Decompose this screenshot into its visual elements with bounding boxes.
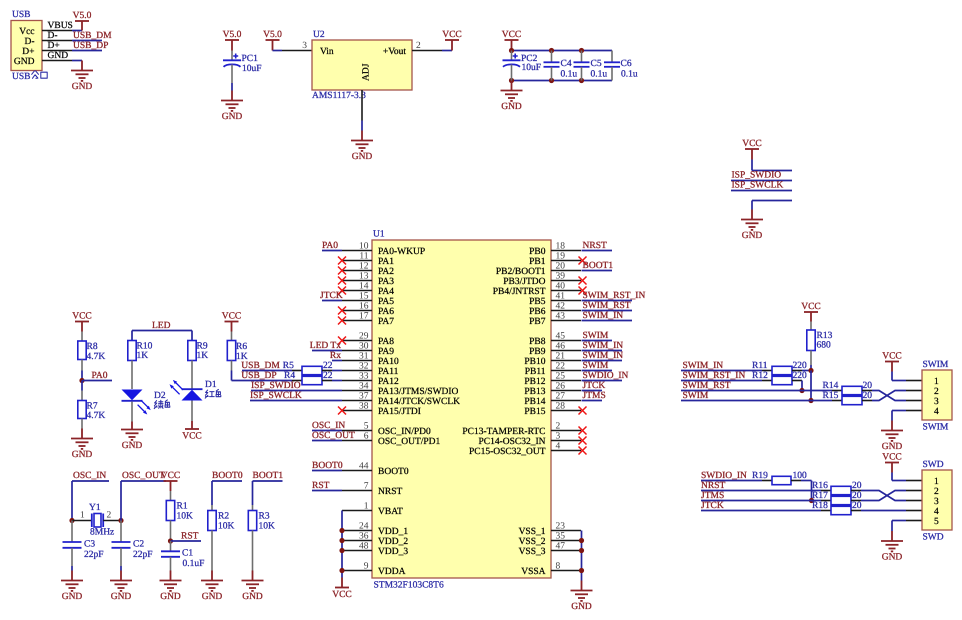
power V5.0 (USB) — [73, 11, 92, 31]
wire net JTCK (U1 pin 26) — [582, 381, 606, 391]
svg-text:VCC: VCC — [222, 312, 242, 322]
svg-text:VSS_3: VSS_3 — [519, 547, 546, 557]
svg-text:VCC: VCC — [332, 590, 352, 600]
wire ISP VCC — [752, 160, 792, 171]
wire net USB_DP with resistor R4 22 — [232, 371, 343, 385]
svg-text:OSC_IN/PD0: OSC_IN/PD0 — [378, 427, 431, 437]
U1 pin 42 PB6 — [529, 301, 581, 317]
U1 pin 24 VDD_1 — [342, 521, 408, 537]
svg-text:R2: R2 — [218, 512, 229, 522]
svg-text:20: 20 — [863, 391, 873, 401]
svg-text:V5.0: V5.0 — [223, 30, 242, 40]
svg-text:1K: 1K — [236, 352, 248, 362]
U1 pin 1 VBAT — [342, 501, 403, 517]
svg-text:PA12: PA12 — [378, 377, 399, 387]
svg-text:D1: D1 — [205, 380, 217, 390]
capacitor C2 22pF — [112, 521, 153, 571]
svg-text:33: 33 — [359, 371, 369, 381]
svg-text:4.7K: 4.7K — [87, 352, 106, 362]
no-connect X at U1 left pin row 310 — [338, 307, 346, 315]
svg-text:PB13: PB13 — [524, 387, 545, 397]
svg-text:VCC: VCC — [182, 431, 202, 441]
svg-text:10K: 10K — [218, 521, 235, 531]
svg-text:23: 23 — [556, 521, 566, 531]
svg-text:AMS1117-3.3: AMS1117-3.3 — [312, 91, 366, 101]
svg-text:R5: R5 — [283, 361, 294, 371]
svg-text:1K: 1K — [197, 351, 209, 361]
svg-text:USB: USB — [12, 72, 30, 82]
svg-text:32: 32 — [359, 361, 369, 371]
svg-text:JTCK: JTCK — [320, 291, 343, 301]
wire net OSC_OUT (U1 pin 6) — [312, 431, 355, 441]
svg-text:37: 37 — [359, 391, 369, 401]
connector SWIM pins — [906, 381, 922, 411]
svg-text:SWIM: SWIM — [583, 331, 609, 341]
wire net SWIM_IN (U1 pin 46) — [582, 341, 624, 351]
svg-text:STM32F103C8T6: STM32F103C8T6 — [374, 581, 444, 591]
svg-text:PB0: PB0 — [529, 247, 546, 257]
U1 pin 38 PA15/JTDI — [342, 401, 421, 417]
junction dot Y1 pin1 node — [69, 518, 74, 523]
svg-text:22: 22 — [556, 361, 566, 371]
wire net PA0 (U1 pin 10) — [322, 241, 342, 251]
resistor R9 1K — [188, 341, 208, 390]
ground GND (C2) — [110, 571, 132, 603]
svg-text:R19: R19 — [752, 471, 768, 481]
wire net SWIM_RST (U1 pin 42) — [582, 301, 633, 311]
pin D+ wire, net USB_DP — [42, 41, 108, 51]
power V5.0 (PC1) — [223, 30, 242, 51]
svg-text:10K: 10K — [259, 521, 276, 531]
capacitor C4 0.1u — [544, 51, 578, 81]
svg-text:C2: C2 — [133, 539, 144, 549]
svg-text:8MHz: 8MHz — [90, 527, 114, 537]
wire net LED — [132, 321, 192, 341]
svg-text:28: 28 — [556, 401, 566, 411]
U1 pin 10 PA0-WKUP — [342, 241, 425, 257]
resistor R2 10K — [208, 505, 235, 571]
svg-text:USB_DM: USB_DM — [241, 361, 280, 371]
wire net JTMS (U1 pin 27) — [582, 391, 606, 401]
ground GND (SWIM pin4) — [881, 421, 903, 453]
connector SWIM body — [922, 360, 952, 432]
svg-text:USB: USB — [12, 10, 30, 20]
svg-text:PB9: PB9 — [529, 347, 546, 357]
svg-text:PB2/BOOT1: PB2/BOOT1 — [496, 267, 546, 277]
svg-text:PB15: PB15 — [524, 407, 545, 417]
wire net SWIM (U1 pin 22) — [582, 361, 613, 371]
junction node RST — [168, 538, 173, 543]
svg-text:PB1: PB1 — [529, 257, 546, 267]
svg-text:43: 43 — [556, 311, 566, 321]
U1 pin 5 OSC_IN/PD0 — [342, 421, 431, 437]
U1 pin 16 PA6 — [342, 301, 394, 317]
svg-text:VDD_2: VDD_2 — [378, 537, 408, 547]
svg-text:ADJ: ADJ — [362, 63, 372, 81]
wire GND to SWIM pin4 — [892, 411, 906, 421]
svg-text:4: 4 — [556, 441, 561, 451]
svg-text:GND: GND — [14, 57, 35, 67]
U1 pin 29 PA8 — [342, 331, 394, 347]
svg-text:R9: R9 — [197, 342, 208, 352]
U1 pin 36 VDD_2 — [342, 531, 408, 547]
resistor R8 4.7K — [78, 332, 106, 381]
power VCC (SWD pin1) — [882, 453, 902, 473]
svg-text:2: 2 — [556, 421, 561, 431]
capacitor C1 0.1uF — [161, 541, 204, 571]
svg-text:6: 6 — [364, 431, 369, 441]
U1 pin 33 PA12 — [342, 371, 399, 387]
svg-text:20: 20 — [852, 491, 862, 501]
no-connect X at U1 left pin row 290 — [338, 287, 346, 295]
wire V5.0 to U2 pin 3 — [273, 50, 283, 52]
svg-text:R18: R18 — [812, 501, 828, 511]
ground GND (U2 ADJ) — [351, 131, 373, 163]
ground GND (D2 cathode) — [121, 422, 143, 452]
U1 pin 13 PA3 — [342, 271, 394, 287]
svg-text:15: 15 — [359, 291, 369, 301]
svg-text:3: 3 — [934, 397, 939, 407]
ground GND (U1 VSS bus) — [581, 581, 583, 591]
svg-text:BOOT0: BOOT0 — [312, 461, 343, 471]
wire net RST — [171, 531, 202, 541]
U1 pin 26 PB13 — [524, 381, 581, 397]
svg-text:GND: GND — [882, 553, 903, 563]
wire net RST (U1 pin 7) — [312, 481, 342, 491]
svg-text:PA0-WKUP: PA0-WKUP — [378, 247, 425, 257]
svg-text:PC1: PC1 — [242, 54, 259, 64]
svg-text:680: 680 — [817, 341, 832, 351]
svg-text:R14: R14 — [823, 381, 839, 391]
svg-text:SWIM: SWIM — [923, 360, 949, 370]
svg-text:D-: D- — [24, 37, 34, 47]
svg-text:VSSA: VSSA — [521, 567, 545, 577]
svg-text:Vcc: Vcc — [19, 27, 34, 37]
ground GND (C3) — [61, 571, 83, 603]
svg-text:VCC: VCC — [882, 453, 902, 463]
U1 pin 7 NRST — [342, 481, 402, 497]
wire R18 to SWD pin4 — [861, 510, 906, 512]
svg-text:SWIM_RST_IN: SWIM_RST_IN — [583, 291, 646, 301]
svg-text:PA0: PA0 — [322, 241, 338, 251]
U1 pin 11 PA1 — [342, 251, 394, 267]
svg-text:D-: D- — [48, 31, 58, 41]
label green (Chinese) for D2 — [154, 400, 170, 409]
svg-text:3: 3 — [556, 431, 561, 441]
wire net SWIM_IN (U1 pin 21) — [582, 351, 624, 361]
svg-text:BOOT0: BOOT0 — [212, 471, 243, 481]
wire R13 node down to SWIM row — [810, 371, 812, 401]
no-connect X at U1 right pin row 410 — [579, 407, 587, 415]
svg-text:5: 5 — [364, 421, 369, 431]
U1 pin 44 BOOT0 — [342, 461, 409, 477]
pin VBUS wire — [42, 21, 82, 31]
svg-text:25: 25 — [556, 371, 566, 381]
wire net SWIM_RST_IN (U1 pin 41) — [582, 291, 646, 301]
wire VCC to SWIM pin1 — [892, 372, 906, 381]
svg-text:+Vout: +Vout — [383, 47, 406, 57]
svg-text:R15: R15 — [823, 391, 839, 401]
U1 pin 47 VSS_3 — [519, 541, 581, 557]
svg-text:SWIM_RST: SWIM_RST — [683, 381, 731, 391]
svg-text:PA0: PA0 — [92, 371, 108, 381]
svg-text:2: 2 — [107, 511, 112, 521]
no-connect X at U1 right pin row 440 — [579, 437, 587, 445]
svg-text:4: 4 — [934, 407, 939, 417]
svg-text:V5.0: V5.0 — [263, 30, 282, 40]
ground GND (SWD pin5) — [881, 531, 903, 563]
svg-text:44: 44 — [359, 461, 369, 471]
svg-text:VSS_1: VSS_1 — [519, 527, 546, 537]
svg-text:SWD: SWD — [923, 460, 944, 470]
svg-text:0.1u: 0.1u — [621, 70, 638, 80]
ground GND (ISP) — [741, 210, 763, 242]
resistor R10 1K — [128, 341, 153, 390]
svg-text:48: 48 — [359, 541, 369, 551]
power VCC (decoupling bank) — [502, 30, 522, 51]
svg-text:ISP_SWCLK: ISP_SWCLK — [250, 391, 302, 401]
svg-text:ISP_SWCLK: ISP_SWCLK — [732, 181, 784, 191]
LED D1 red — [170, 380, 217, 421]
junction dots top rail — [509, 48, 514, 53]
svg-text:PB5: PB5 — [529, 297, 546, 307]
capacitor C6 0.1u — [604, 51, 638, 81]
svg-text:100: 100 — [793, 471, 808, 481]
svg-text:VCC: VCC — [502, 30, 522, 40]
svg-text:SWIM_IN: SWIM_IN — [583, 311, 624, 321]
svg-text:USB_DP: USB_DP — [73, 41, 108, 51]
svg-text:Y1: Y1 — [89, 503, 101, 513]
power VCC (D1 anode, pointing down) — [182, 421, 202, 441]
svg-text:SWIM_RST_IN: SWIM_RST_IN — [683, 371, 746, 381]
svg-text:PB4/JNTRST: PB4/JNTRST — [493, 287, 546, 297]
MCU U1 STM32F103C8T6 body — [372, 230, 551, 591]
no-connect X at U1 right pin row 430 — [579, 427, 587, 435]
wire crossover R16 to SWD pin3 — [861, 491, 906, 501]
svg-text:VCC: VCC — [801, 302, 821, 312]
svg-text:13: 13 — [359, 271, 369, 281]
svg-text:VCC: VCC — [161, 471, 181, 481]
junction dot SWIM node — [808, 398, 813, 403]
svg-text:C6: C6 — [621, 59, 632, 69]
wire net LED Tx (U1 pin 30) — [310, 341, 342, 351]
wire net OSC_IN (crystal) — [72, 471, 109, 521]
svg-text:10: 10 — [359, 241, 369, 251]
U1 pin 22 PB11 — [525, 361, 581, 377]
junction dots VSS bus — [579, 538, 584, 543]
svg-text:R8: R8 — [87, 342, 98, 352]
resistor R13 680 — [807, 322, 833, 371]
svg-text:R11: R11 — [752, 361, 768, 371]
svg-text:PA11: PA11 — [378, 367, 399, 377]
wire net USB_DM with resistor R5 22 — [241, 361, 342, 375]
U1 pin 48 VDD_3 — [342, 541, 408, 557]
svg-text:OSC_IN: OSC_IN — [73, 471, 106, 481]
wire net JTCK (U1 pin 15) — [320, 291, 343, 301]
svg-text:PB8: PB8 — [529, 337, 546, 347]
no-connect X at U1 left pin row 260 — [338, 257, 346, 265]
U1 pin 3 PC14-OSC32_IN — [478, 431, 581, 447]
wire crossover R14 to SWIM pin3 — [872, 391, 906, 401]
no-connect X at U1 right pin row 260 — [579, 257, 587, 265]
resistor R7 4.7K — [78, 381, 106, 429]
svg-text:34: 34 — [359, 381, 369, 391]
svg-text:JTMS: JTMS — [583, 391, 606, 401]
svg-text:JTMS: JTMS — [701, 491, 724, 501]
svg-text:OSC_OUT: OSC_OUT — [122, 471, 165, 481]
power VCC (R13) — [801, 302, 821, 322]
ground GND (R7) — [71, 429, 93, 461]
wire R6 to USB_DP — [231, 371, 233, 381]
svg-text:39: 39 — [556, 271, 566, 281]
resistor R6 1K — [227, 332, 247, 371]
svg-text:R1: R1 — [177, 502, 188, 512]
svg-text:21: 21 — [556, 351, 566, 361]
svg-text:20: 20 — [556, 261, 566, 271]
svg-text:PB7: PB7 — [529, 317, 546, 327]
svg-text:GND: GND — [242, 592, 263, 602]
svg-text:R3: R3 — [259, 512, 270, 522]
svg-text:PA8: PA8 — [378, 337, 394, 347]
svg-text:47: 47 — [556, 541, 566, 551]
svg-text:SWDIO_IN: SWDIO_IN — [583, 371, 629, 381]
junction dot R11/R13 node — [808, 368, 813, 373]
svg-text:SWIM_IN: SWIM_IN — [683, 361, 724, 371]
svg-text:GND: GND — [160, 592, 181, 602]
svg-text:BOOT1: BOOT1 — [583, 261, 614, 271]
no-connect X at U1 right pin row 280 — [579, 277, 587, 285]
svg-text:42: 42 — [556, 301, 566, 311]
svg-text:SWDIO_IN: SWDIO_IN — [701, 471, 747, 481]
label USB male socket (Chinese) — [12, 71, 47, 82]
wire net SWIM_RST_IN with resistor R12 220 — [681, 371, 807, 391]
svg-text:VBUS: VBUS — [48, 21, 73, 31]
U1 pin 46 PB9 — [529, 341, 581, 357]
svg-text:PA15/JTDI: PA15/JTDI — [378, 407, 421, 417]
power VCC (U1 VDD bus, pointing down) — [332, 578, 352, 600]
svg-text:20: 20 — [863, 381, 873, 391]
wire net BOOT1 (R3) — [253, 471, 284, 505]
U1 pin 37 PA14/JTCK/SWCLK — [342, 391, 460, 407]
svg-text:0.1u: 0.1u — [591, 70, 608, 80]
wire crossover R17 to SWD pin2 — [861, 491, 906, 501]
junction node PA0 — [79, 378, 84, 383]
connector SWD pins — [906, 481, 922, 521]
svg-text:GND: GND — [222, 112, 243, 122]
svg-text:2: 2 — [934, 387, 939, 397]
svg-text:C1: C1 — [182, 548, 193, 558]
svg-text:U2: U2 — [313, 30, 325, 40]
svg-text:R4: R4 — [284, 371, 295, 381]
svg-text:29: 29 — [359, 331, 369, 341]
svg-text:10uF: 10uF — [242, 64, 262, 74]
svg-text:OSC_OUT: OSC_OUT — [312, 431, 355, 441]
wire net ISP_SWDIO — [731, 171, 792, 181]
svg-text:VSS_2: VSS_2 — [519, 537, 546, 547]
svg-text:16: 16 — [359, 301, 369, 311]
junction dot Y1 pin2 node — [118, 518, 123, 523]
connector SWD body — [922, 460, 952, 542]
no-connect X at U1 right pin row 450 — [579, 447, 587, 455]
wire net Rx (U1 pin 31) — [330, 351, 342, 361]
resistor R1 10K — [166, 491, 193, 541]
regulator U2 AMS1117-3.3 — [312, 30, 412, 101]
svg-text:D+: D+ — [22, 47, 34, 57]
U1 pin 30 PA9 — [342, 341, 394, 357]
no-connect X at U1 left pin row 270 — [338, 267, 346, 275]
no-connect X at U1 left pin row 320 — [338, 317, 346, 325]
svg-text:GND: GND — [48, 51, 69, 61]
svg-text:ISP_SWDIO: ISP_SWDIO — [251, 381, 301, 391]
wire GND to SWD pin5 — [892, 521, 906, 532]
svg-text:RST: RST — [181, 531, 199, 541]
wire net ISP_SWCLK — [731, 181, 792, 191]
ground GND (R3) — [242, 571, 264, 603]
wire net ISP_SWDIO (U1 pin 34) — [251, 381, 342, 391]
wire net SWDIO_IN (U1 pin 25) — [582, 371, 629, 381]
wire net BOOT0 (U1 pin 44) — [312, 461, 343, 471]
svg-text:PA13/JTMS/SWDIO: PA13/JTMS/SWDIO — [378, 387, 459, 397]
svg-text:PB11: PB11 — [525, 367, 546, 377]
capacitor PC2 10uF polarized — [503, 51, 542, 81]
wire net NRST (U1 pin 18) — [582, 241, 613, 251]
wire VCC to SWD pin1 — [892, 473, 906, 481]
svg-text:NRST: NRST — [583, 241, 607, 251]
svg-text:D+: D+ — [48, 41, 60, 51]
svg-text:SWIM_IN: SWIM_IN — [583, 341, 624, 351]
U1 pin 25 PB12 — [524, 371, 581, 387]
svg-text:17: 17 — [359, 311, 369, 321]
U1 pin 40 PB4/JNTRST — [493, 281, 581, 297]
svg-text:USB_DM: USB_DM — [73, 31, 112, 41]
U1 pin 19 PB1 — [529, 251, 581, 267]
U1 pin 41 PB5 — [529, 291, 581, 307]
svg-text:2: 2 — [934, 487, 939, 497]
svg-text:GND: GND — [501, 102, 522, 112]
svg-text:VCC: VCC — [442, 30, 462, 40]
svg-text:PB14: PB14 — [524, 397, 545, 407]
svg-text:JTCK: JTCK — [583, 381, 606, 391]
svg-text:PA7: PA7 — [378, 317, 394, 327]
ground GND (PC1) — [221, 91, 243, 123]
svg-text:PA5: PA5 — [378, 297, 394, 307]
svg-text:GND: GND — [72, 450, 93, 460]
svg-text:11: 11 — [359, 251, 368, 261]
U1 pin 45 PB8 — [529, 331, 581, 347]
svg-text:41: 41 — [556, 291, 566, 301]
svg-text:5: 5 — [934, 517, 939, 527]
svg-text:R17: R17 — [812, 491, 828, 501]
wire net PA0 (divider) — [82, 371, 112, 381]
svg-text:46: 46 — [556, 341, 566, 351]
capacitor C3 22pF — [63, 521, 104, 571]
U1 pin 8 VSSA — [521, 561, 581, 577]
no-connect X at U1 left pin row 340 — [338, 337, 346, 345]
U1 pin 20 PB2/BOOT1 — [496, 261, 581, 277]
svg-text:Rx: Rx — [330, 351, 341, 361]
svg-text:PB12: PB12 — [524, 377, 545, 387]
power VCC (R6) — [222, 312, 242, 332]
svg-text:1: 1 — [364, 501, 369, 511]
svg-text:ISP_SWDIO: ISP_SWDIO — [732, 171, 782, 181]
wire VSS bus right of U1 — [581, 531, 583, 581]
svg-text:14: 14 — [359, 281, 369, 291]
svg-text:1: 1 — [934, 377, 939, 387]
svg-text:35: 35 — [556, 531, 566, 541]
svg-text:31: 31 — [359, 351, 369, 361]
U1 pin 28 PB15 — [524, 401, 581, 417]
svg-text:12: 12 — [359, 261, 369, 271]
